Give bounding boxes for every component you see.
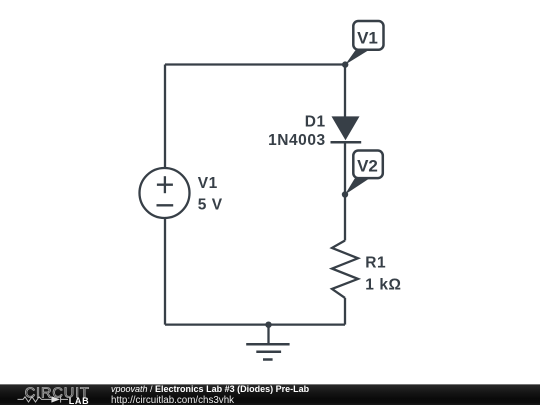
svg-text:V1: V1 [357,29,378,48]
svg-text:1N4003: 1N4003 [268,132,326,149]
svg-text:5 V: 5 V [198,196,223,213]
svg-text:D1: D1 [305,113,326,130]
svg-text:V2: V2 [357,157,378,176]
svg-text:V1: V1 [198,175,218,192]
svg-text:LAB: LAB [69,396,90,405]
svg-text:1 kΩ: 1 kΩ [365,276,401,293]
svg-text:R1: R1 [365,255,386,272]
